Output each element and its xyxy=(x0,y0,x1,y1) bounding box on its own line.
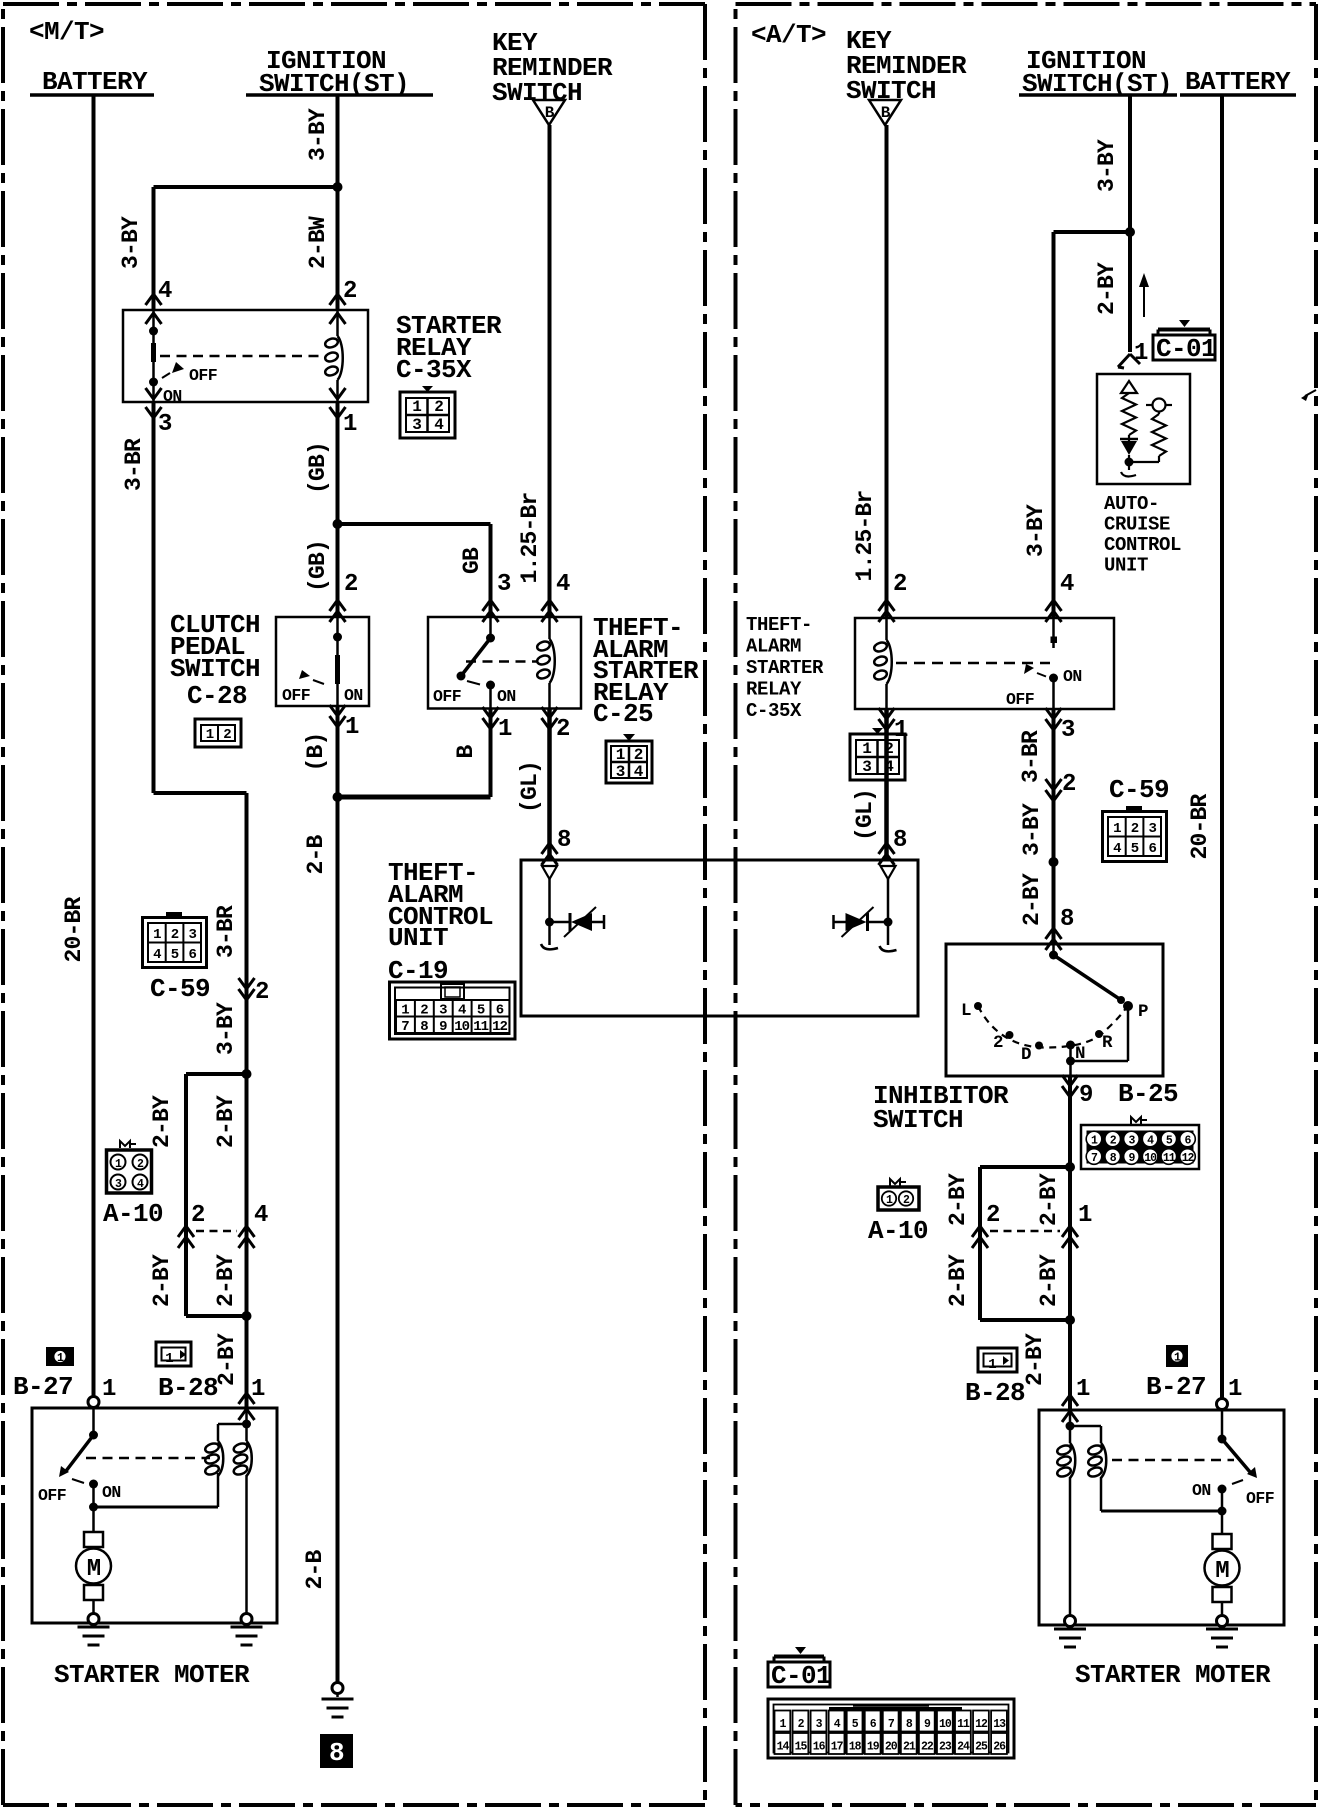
svg-text:8: 8 xyxy=(420,1019,428,1035)
wire (B) clutch pin1 down xyxy=(336,706,340,797)
wire label 2-BY at B-28 (left) xyxy=(214,1333,240,1386)
connector label box C-01 (bottom) xyxy=(768,1647,831,1691)
svg-text:12: 12 xyxy=(975,1718,988,1731)
pin 1 label and chevrons (starter relay left) xyxy=(330,388,358,438)
pin 3 label and chevrons (starter relay left) xyxy=(146,388,173,438)
pin 2 chevrons at C-35X (right) xyxy=(879,571,907,622)
wire loop right branch (right) xyxy=(1068,1167,1072,1320)
svg-text:4: 4 xyxy=(556,571,570,598)
wire B horizontal link xyxy=(338,795,491,800)
starter relay link dashed line (left) xyxy=(160,355,325,358)
clutch switch contact dot xyxy=(333,617,342,706)
svg-text:11: 11 xyxy=(473,1019,488,1035)
svg-text:1: 1 xyxy=(988,1357,996,1373)
node KEY REMINDER SWITCH (left) label xyxy=(492,28,613,108)
left panel border (M/T) dash-dot frame xyxy=(3,4,705,1805)
svg-text:2-BY: 2-BY xyxy=(1036,1254,1062,1307)
svg-text:(B): (B) xyxy=(303,732,329,771)
wire label 2-BW xyxy=(305,216,331,269)
svg-text:B-28: B-28 xyxy=(158,1373,218,1403)
wire label (B) xyxy=(303,732,329,771)
wire 2-BY to starter (left) xyxy=(245,1316,249,1410)
svg-text:A-10: A-10 xyxy=(103,1199,163,1229)
svg-text:(GL): (GL) xyxy=(852,789,878,841)
starter switch wire from terminal (left) xyxy=(92,1407,95,1435)
starter relay C-35X box (left) xyxy=(123,310,368,402)
svg-text:11: 11 xyxy=(1163,1152,1176,1165)
wire label (GL) left xyxy=(517,761,543,813)
auto-cruise resistor 1 zigzag xyxy=(1122,393,1136,435)
node junction loop top (right) xyxy=(1065,1162,1075,1172)
svg-text:L: L xyxy=(961,1001,971,1021)
right panel border (A/T) dash-dot frame xyxy=(736,4,1317,1805)
component label STARTER MOTER (left) xyxy=(54,1660,250,1690)
component label C-19 xyxy=(388,956,448,986)
wire GB vertical to theft relay pin3 xyxy=(489,524,493,617)
connector icon B-27 (right) xyxy=(1166,1345,1188,1367)
connector icon C-25 4-pin xyxy=(606,734,652,783)
wire label 3-BY (branch, left) xyxy=(118,216,144,269)
motor M (right) xyxy=(1205,1534,1240,1616)
control unit left output wire xyxy=(545,879,554,945)
connector label box C-01 (top right) xyxy=(1153,320,1216,364)
wire 3-BR from relay pin3 down (left) xyxy=(152,402,156,793)
svg-text:8: 8 xyxy=(1060,906,1074,933)
auto-cruise resistor 2 zigzag xyxy=(1152,412,1166,463)
component label B-28 (left) xyxy=(158,1373,218,1403)
node junction 2-BY loop top (left) xyxy=(242,1069,252,1079)
svg-text:1: 1 xyxy=(1076,1376,1090,1403)
auto-cruise pin terminal fork xyxy=(1118,354,1140,368)
svg-text:1: 1 xyxy=(616,746,625,764)
svg-text:7: 7 xyxy=(401,1019,409,1035)
svg-text:1.25-Br: 1.25-Br xyxy=(852,490,878,581)
pin 2 chevrons below C-25 xyxy=(542,707,570,743)
wire label B (vertical) xyxy=(453,745,479,759)
wire label 3-BY (right inhibitor) xyxy=(1019,803,1045,856)
wire battery 20-BR (left) vertical xyxy=(92,95,96,1402)
svg-text:3-BY: 3-BY xyxy=(1094,139,1120,192)
wire 2-BY inhibitor to loop (right) xyxy=(1068,1076,1072,1167)
starter switch blade OFF (left) xyxy=(59,1435,94,1477)
component label CLUTCH PEDAL SWITCH xyxy=(170,610,260,684)
svg-text:2: 2 xyxy=(434,398,443,416)
svg-text:20: 20 xyxy=(885,1741,898,1754)
svg-text:12: 12 xyxy=(1182,1152,1195,1165)
theft-alarm starter relay C-25 box xyxy=(428,617,581,709)
starter solenoid coil B (left) xyxy=(233,1441,252,1476)
svg-text:OFF: OFF xyxy=(1006,690,1034,709)
wire GB horizontal to theft relay (left) xyxy=(338,522,491,526)
wire (GL) C-35X pin1 down (right) xyxy=(884,709,889,860)
svg-text:R: R xyxy=(1102,1033,1113,1053)
svg-text:RELAY: RELAY xyxy=(746,679,802,701)
inhibitor P contact xyxy=(1123,1001,1133,1011)
starter relay winding link (left) xyxy=(94,1473,219,1507)
connector A-10 crossing pin2 (right) xyxy=(972,1202,1000,1248)
svg-text:2: 2 xyxy=(420,1003,428,1019)
component label C-59 (right) xyxy=(1109,775,1169,805)
connector A-10 dashed link (left) xyxy=(196,1230,237,1233)
wire label 2-BY loop right lower xyxy=(213,1254,239,1307)
node IGNITION SWITCH(ST) (right) label xyxy=(1019,46,1177,99)
svg-text:17: 17 xyxy=(831,1741,844,1754)
wire B vertical to C-25 pin1 xyxy=(489,708,493,797)
ground terminal of 2-B wire xyxy=(322,1683,354,1718)
theft-alarm starter relay C-35X box (right) xyxy=(855,618,1114,709)
wire label 3-BY (left lower) xyxy=(213,1002,239,1055)
svg-text:STARTER: STARTER xyxy=(746,657,824,679)
svg-text:2: 2 xyxy=(1131,821,1139,837)
svg-text:THEFT-: THEFT- xyxy=(746,614,812,636)
svg-text:5: 5 xyxy=(171,947,179,963)
node junction dot (right chain) xyxy=(1049,857,1059,867)
node junction ignition/relay branch (left) xyxy=(333,182,343,192)
component label B-25 xyxy=(1118,1079,1178,1109)
wire label 2-BY loop right upper xyxy=(213,1095,239,1148)
connector icon C-19 12-pin xyxy=(390,982,516,1039)
starter relay movable blade (left) xyxy=(149,343,158,387)
svg-text:3-BY: 3-BY xyxy=(118,216,144,269)
wire (GB) to clutch switch pin2 xyxy=(336,524,340,617)
component label A-10 (left) xyxy=(103,1199,163,1229)
battery terminal circle (right starter) xyxy=(1217,1399,1228,1410)
svg-text:1: 1 xyxy=(251,1376,265,1403)
component label C-59 (left) xyxy=(150,974,210,1004)
svg-text:M: M xyxy=(87,1556,101,1583)
wire label 2-BY loop left lower xyxy=(149,1254,175,1307)
starter solenoid dashed link (left) xyxy=(86,1457,210,1460)
node junction loop bottom (right) xyxy=(980,1315,1075,1325)
connector B-28 crossing pin1 (left) xyxy=(239,1376,266,1420)
svg-text:1: 1 xyxy=(862,740,871,758)
svg-text:2-BW: 2-BW xyxy=(305,216,331,269)
wire 3-BR corner to main chain (left) xyxy=(154,793,247,982)
svg-text:(GB): (GB) xyxy=(305,442,331,494)
pin 1 chevrons below clutch switch xyxy=(330,705,360,741)
svg-text:2: 2 xyxy=(223,727,231,743)
svg-text:C-59: C-59 xyxy=(150,974,210,1004)
svg-text:B-27: B-27 xyxy=(13,1372,73,1402)
auto-cruise hook xyxy=(1121,472,1136,476)
svg-text:GB: GB xyxy=(459,547,485,574)
svg-text:11: 11 xyxy=(957,1718,970,1731)
svg-text:2-BY: 2-BY xyxy=(1094,262,1120,315)
svg-text:8: 8 xyxy=(329,1738,344,1768)
diode (right, control unit) xyxy=(834,907,889,937)
wire label (GL) right xyxy=(852,789,878,841)
component label STARTER MOTER (right) xyxy=(1075,1660,1271,1690)
inhibitor N output xyxy=(1069,1045,1072,1076)
svg-text:10: 10 xyxy=(1144,1152,1157,1165)
starter relay OFF throw marker (left) xyxy=(162,362,184,378)
svg-text:3-BY: 3-BY xyxy=(213,1002,239,1055)
control unit left hook ground xyxy=(541,944,558,949)
wire loop left branch (right) xyxy=(978,1167,982,1320)
starter relay winding link (right) xyxy=(1101,1477,1222,1511)
svg-text:ON: ON xyxy=(163,387,182,406)
svg-text:1: 1 xyxy=(1078,1202,1092,1229)
svg-text:19: 19 xyxy=(867,1741,880,1754)
svg-text:3: 3 xyxy=(862,758,871,776)
C-25 link dashed line xyxy=(466,660,539,663)
starter solenoid coil B (right) xyxy=(1087,1443,1106,1478)
connector B-28 crossing pin1 (right) xyxy=(1062,1376,1090,1422)
svg-text:3: 3 xyxy=(1061,717,1075,744)
pin 1 label at battery terminal (right) xyxy=(1228,1376,1242,1403)
pin 8 chevrons into control unit (right) xyxy=(879,827,908,865)
svg-text:C-35X: C-35X xyxy=(396,355,472,385)
svg-text:1: 1 xyxy=(401,1003,409,1019)
svg-text:4: 4 xyxy=(434,416,444,434)
svg-text:2: 2 xyxy=(893,571,907,598)
starter switch to motor junction (right) xyxy=(1218,1489,1227,1534)
wire label 2-BY at B-28 (right) xyxy=(1022,1333,1048,1386)
node junction 2-BY loop bottom (left) xyxy=(186,1311,252,1321)
pin 2 label and chevrons (starter relay left) xyxy=(330,278,357,324)
connector icon B-27 (left) xyxy=(46,1347,74,1366)
wire label 2-B upper xyxy=(303,835,329,875)
svg-text:1: 1 xyxy=(498,716,512,743)
component label AUTO-CRUISE CONTROL UNIT xyxy=(1104,493,1181,577)
control unit right output wire xyxy=(884,879,893,945)
component label INHIBITOR SWITCH xyxy=(873,1081,1009,1135)
starter solenoid coil A (left) xyxy=(204,1441,223,1476)
svg-text:2: 2 xyxy=(993,1033,1003,1053)
svg-text:6: 6 xyxy=(1148,841,1156,857)
wire label 1.25-Br (right) xyxy=(852,490,878,581)
starter switch contact dot (right) xyxy=(1218,1435,1227,1444)
node junction ignition branch (right) xyxy=(1125,227,1135,237)
svg-text:2-BY: 2-BY xyxy=(945,1254,971,1307)
control unit inner terminal triangle (left) xyxy=(542,866,557,879)
svg-text:C-35X: C-35X xyxy=(746,700,802,722)
svg-text:1: 1 xyxy=(1113,821,1121,837)
pin 1 chevrons below C-35X (right) xyxy=(879,708,909,744)
svg-text:8: 8 xyxy=(557,827,571,854)
svg-text:B: B xyxy=(881,104,891,122)
svg-text:P: P xyxy=(1138,1002,1148,1022)
inhibitor switch box xyxy=(946,944,1163,1076)
svg-text:4: 4 xyxy=(254,1202,268,1229)
starter switch blade OFF (right) xyxy=(1222,1439,1257,1478)
svg-text:STARTER MOTER: STARTER MOTER xyxy=(1075,1660,1271,1690)
inhibitor dashed arc xyxy=(978,1005,1128,1048)
starter coil B down to ground (left) xyxy=(245,1475,248,1614)
svg-text:26: 26 xyxy=(993,1741,1006,1754)
svg-text:A-10: A-10 xyxy=(868,1216,928,1246)
wire label 2-B lower xyxy=(302,1550,328,1590)
svg-text:STARTER MOTER: STARTER MOTER xyxy=(54,1660,250,1690)
wire 3-BR C-35X pin3 down (right) xyxy=(1052,709,1056,944)
svg-text:13: 13 xyxy=(993,1718,1006,1731)
key reminder switch terminal B triangle (left) xyxy=(533,100,565,125)
auto-cruise internal link xyxy=(1129,461,1159,463)
auto-cruise sensor circle xyxy=(1146,399,1172,412)
wire loop top horizontal (right) xyxy=(980,1165,1070,1169)
node junction B (left) xyxy=(333,792,343,802)
ground under coil (right) xyxy=(1054,1616,1086,1648)
wire loop left branch (left) xyxy=(184,1074,188,1316)
label ON (clutch) xyxy=(344,686,363,705)
pin 8 chevrons into inhibitor xyxy=(1046,906,1075,950)
auto-cruise input triangle xyxy=(1121,381,1137,393)
starter solenoid dashed link (right) xyxy=(1112,1459,1234,1462)
wire label (GB) lower xyxy=(305,540,331,592)
connector icon A-10 (left) 4-pin xyxy=(107,1141,152,1193)
C-25 coil on pin4-pin2 wire xyxy=(536,617,555,708)
svg-text:9: 9 xyxy=(1079,1082,1093,1109)
connector icon C-59 (right) 6-pin xyxy=(1103,806,1167,862)
svg-text:2-BY: 2-BY xyxy=(213,1254,239,1307)
svg-text:3: 3 xyxy=(188,927,196,943)
svg-text:20-BR: 20-BR xyxy=(61,896,87,962)
svg-text:SWITCH: SWITCH xyxy=(873,1105,963,1135)
svg-text:21: 21 xyxy=(903,1741,916,1754)
wire ignition 3-BY (right) xyxy=(1128,95,1132,232)
connector A-10 crossing pin2 (left) xyxy=(178,1202,205,1248)
svg-text:1: 1 xyxy=(206,727,214,743)
svg-text:1: 1 xyxy=(165,1351,173,1367)
svg-text:2-BY: 2-BY xyxy=(1036,1173,1062,1226)
svg-text:18: 18 xyxy=(849,1741,862,1754)
wire label 3-BR (left lower) xyxy=(213,905,239,958)
connector icon C-01 26-pin xyxy=(768,1699,1014,1758)
pin 1 label at auto-cruise xyxy=(1134,340,1148,367)
svg-text:1: 1 xyxy=(345,714,359,741)
wire label 20-BR (right) xyxy=(1187,793,1213,859)
component label B-27 (left) xyxy=(13,1372,73,1402)
panel label A/T xyxy=(751,20,826,50)
svg-text:3: 3 xyxy=(616,763,625,781)
svg-text:ON: ON xyxy=(102,1483,121,1502)
ground under motor (left) xyxy=(78,1614,110,1646)
svg-text:OFF: OFF xyxy=(282,686,310,705)
wire branch 3-BY to C-35X pin4 (right) xyxy=(1052,232,1056,618)
component label STARTER RELAY C-35X (left) xyxy=(396,311,502,385)
C-25 switch blade diagonal xyxy=(457,617,496,681)
svg-text:OFF: OFF xyxy=(38,1486,66,1505)
connector icon C-28 2-pin xyxy=(195,719,241,747)
svg-text:2-BY: 2-BY xyxy=(149,1254,175,1307)
wire 2-BW ignition to relay pin2 (left) xyxy=(336,187,340,310)
pin 9 chevrons below inhibitor xyxy=(1062,1075,1093,1109)
connector icon A-10 (right) 2-pin xyxy=(878,1179,919,1210)
wire battery 20-BR (right) xyxy=(1220,95,1224,1402)
label OFF (right starter) xyxy=(1246,1489,1274,1508)
inhibitor position dots L 2 D N R xyxy=(974,1002,1103,1050)
svg-text:CRUISE: CRUISE xyxy=(1104,514,1170,536)
starter switch to motor junction (left) xyxy=(89,1484,98,1532)
label ON (C-25) xyxy=(497,687,516,706)
starter motor box (left) xyxy=(32,1408,277,1623)
svg-text:1: 1 xyxy=(1228,1376,1242,1403)
svg-text:UNIT: UNIT xyxy=(1104,555,1148,577)
svg-text:2-BY: 2-BY xyxy=(149,1095,175,1148)
svg-text:6: 6 xyxy=(188,947,196,963)
svg-text:2-BY: 2-BY xyxy=(1022,1333,1048,1386)
svg-text:2: 2 xyxy=(171,927,179,943)
connector icon B-28 (right) xyxy=(978,1348,1017,1373)
clutch switch OFF ghost marker xyxy=(299,670,324,684)
component label THEFT-ALARM STARTER RELAY C-35X (right) xyxy=(746,614,824,722)
current direction arrow (right) xyxy=(1139,273,1149,317)
wire 2-B down to ground (left) xyxy=(336,797,340,1683)
svg-text:2: 2 xyxy=(634,746,643,764)
svg-text:2: 2 xyxy=(344,571,358,598)
svg-text:UNIT: UNIT xyxy=(388,923,448,953)
wire 2-BY ignition to auto-cruise (right) xyxy=(1128,232,1132,352)
svg-text:ON: ON xyxy=(1063,667,1082,686)
wire 3-BY auto-cruise branch to C-35X pin4 label xyxy=(1023,504,1049,557)
svg-text:BATTERY: BATTERY xyxy=(1185,67,1291,97)
starter solenoid coil tops (right) xyxy=(1066,1412,1102,1443)
grid reference black box 8 xyxy=(320,1734,353,1768)
component label C-28 xyxy=(187,681,247,711)
connector A-10 dashed link (right) xyxy=(990,1230,1060,1233)
label OFF (clutch) xyxy=(282,686,310,705)
svg-text:22: 22 xyxy=(921,1741,934,1754)
theft-alarm control unit box C-19 xyxy=(521,860,918,1016)
wire branch 3-BY vertical to relay pin4 (left) xyxy=(152,187,156,310)
svg-text:4: 4 xyxy=(634,763,644,781)
svg-text:<A/T>: <A/T> xyxy=(751,20,826,50)
svg-text:B-28: B-28 xyxy=(965,1378,1025,1408)
svg-text:3: 3 xyxy=(497,571,511,598)
svg-text:4: 4 xyxy=(1113,841,1121,857)
svg-text:D: D xyxy=(1021,1045,1031,1065)
panel label M/T xyxy=(29,17,104,47)
svg-text:14: 14 xyxy=(777,1741,790,1754)
connector A-10 crossing pin1 (right) xyxy=(1062,1202,1092,1248)
svg-text:C-01: C-01 xyxy=(1156,334,1216,364)
svg-text:C-28: C-28 xyxy=(187,681,247,711)
label ON (left starter) xyxy=(102,1483,121,1502)
svg-text:10: 10 xyxy=(454,1019,469,1035)
wire label 20-BR (left) xyxy=(61,896,87,962)
svg-text:2-BY: 2-BY xyxy=(945,1173,971,1226)
svg-text:3-BY: 3-BY xyxy=(1023,504,1049,557)
svg-text:OFF: OFF xyxy=(189,366,217,385)
svg-text:8: 8 xyxy=(893,827,907,854)
svg-text:2-B: 2-B xyxy=(302,1550,328,1590)
C-35X switch (right) xyxy=(1049,618,1058,709)
svg-text:1.25-Br: 1.25-Br xyxy=(517,492,543,583)
svg-text:B-27: B-27 xyxy=(1146,1372,1206,1402)
svg-text:ON: ON xyxy=(1192,1481,1211,1500)
svg-text:ALARM: ALARM xyxy=(746,636,801,658)
auto-cruise zener diode xyxy=(1120,435,1138,455)
svg-text:1: 1 xyxy=(153,927,161,943)
connector icon C-59 (left) 6-pin xyxy=(143,912,207,968)
svg-text:<M/T>: <M/T> xyxy=(29,17,104,47)
starter coil A down to ground (right) xyxy=(1069,1477,1072,1616)
connector C-59 crossing chevrons pin2 (left) xyxy=(239,978,269,1006)
wire label 2-BY loop left upper xyxy=(149,1095,175,1148)
pin 4 label and chevrons (starter relay left) xyxy=(146,278,173,324)
wire loop top horizontal (left) xyxy=(186,1072,247,1076)
node junction GB split (left) xyxy=(333,519,343,529)
wire ignition 3-BY (left) xyxy=(336,95,340,187)
svg-text:3-BY: 3-BY xyxy=(1019,803,1045,856)
svg-text:20-BR: 20-BR xyxy=(1187,793,1213,859)
battery terminal circle (left starter) xyxy=(88,1397,99,1408)
svg-text:B: B xyxy=(545,104,555,122)
pin 1 label at battery terminal (left) xyxy=(102,1376,116,1403)
wire loop right 2-BY (left) xyxy=(245,1074,249,1316)
pin 4 chevrons at theft relay C-25 xyxy=(542,571,571,622)
svg-text:4: 4 xyxy=(1060,571,1074,598)
